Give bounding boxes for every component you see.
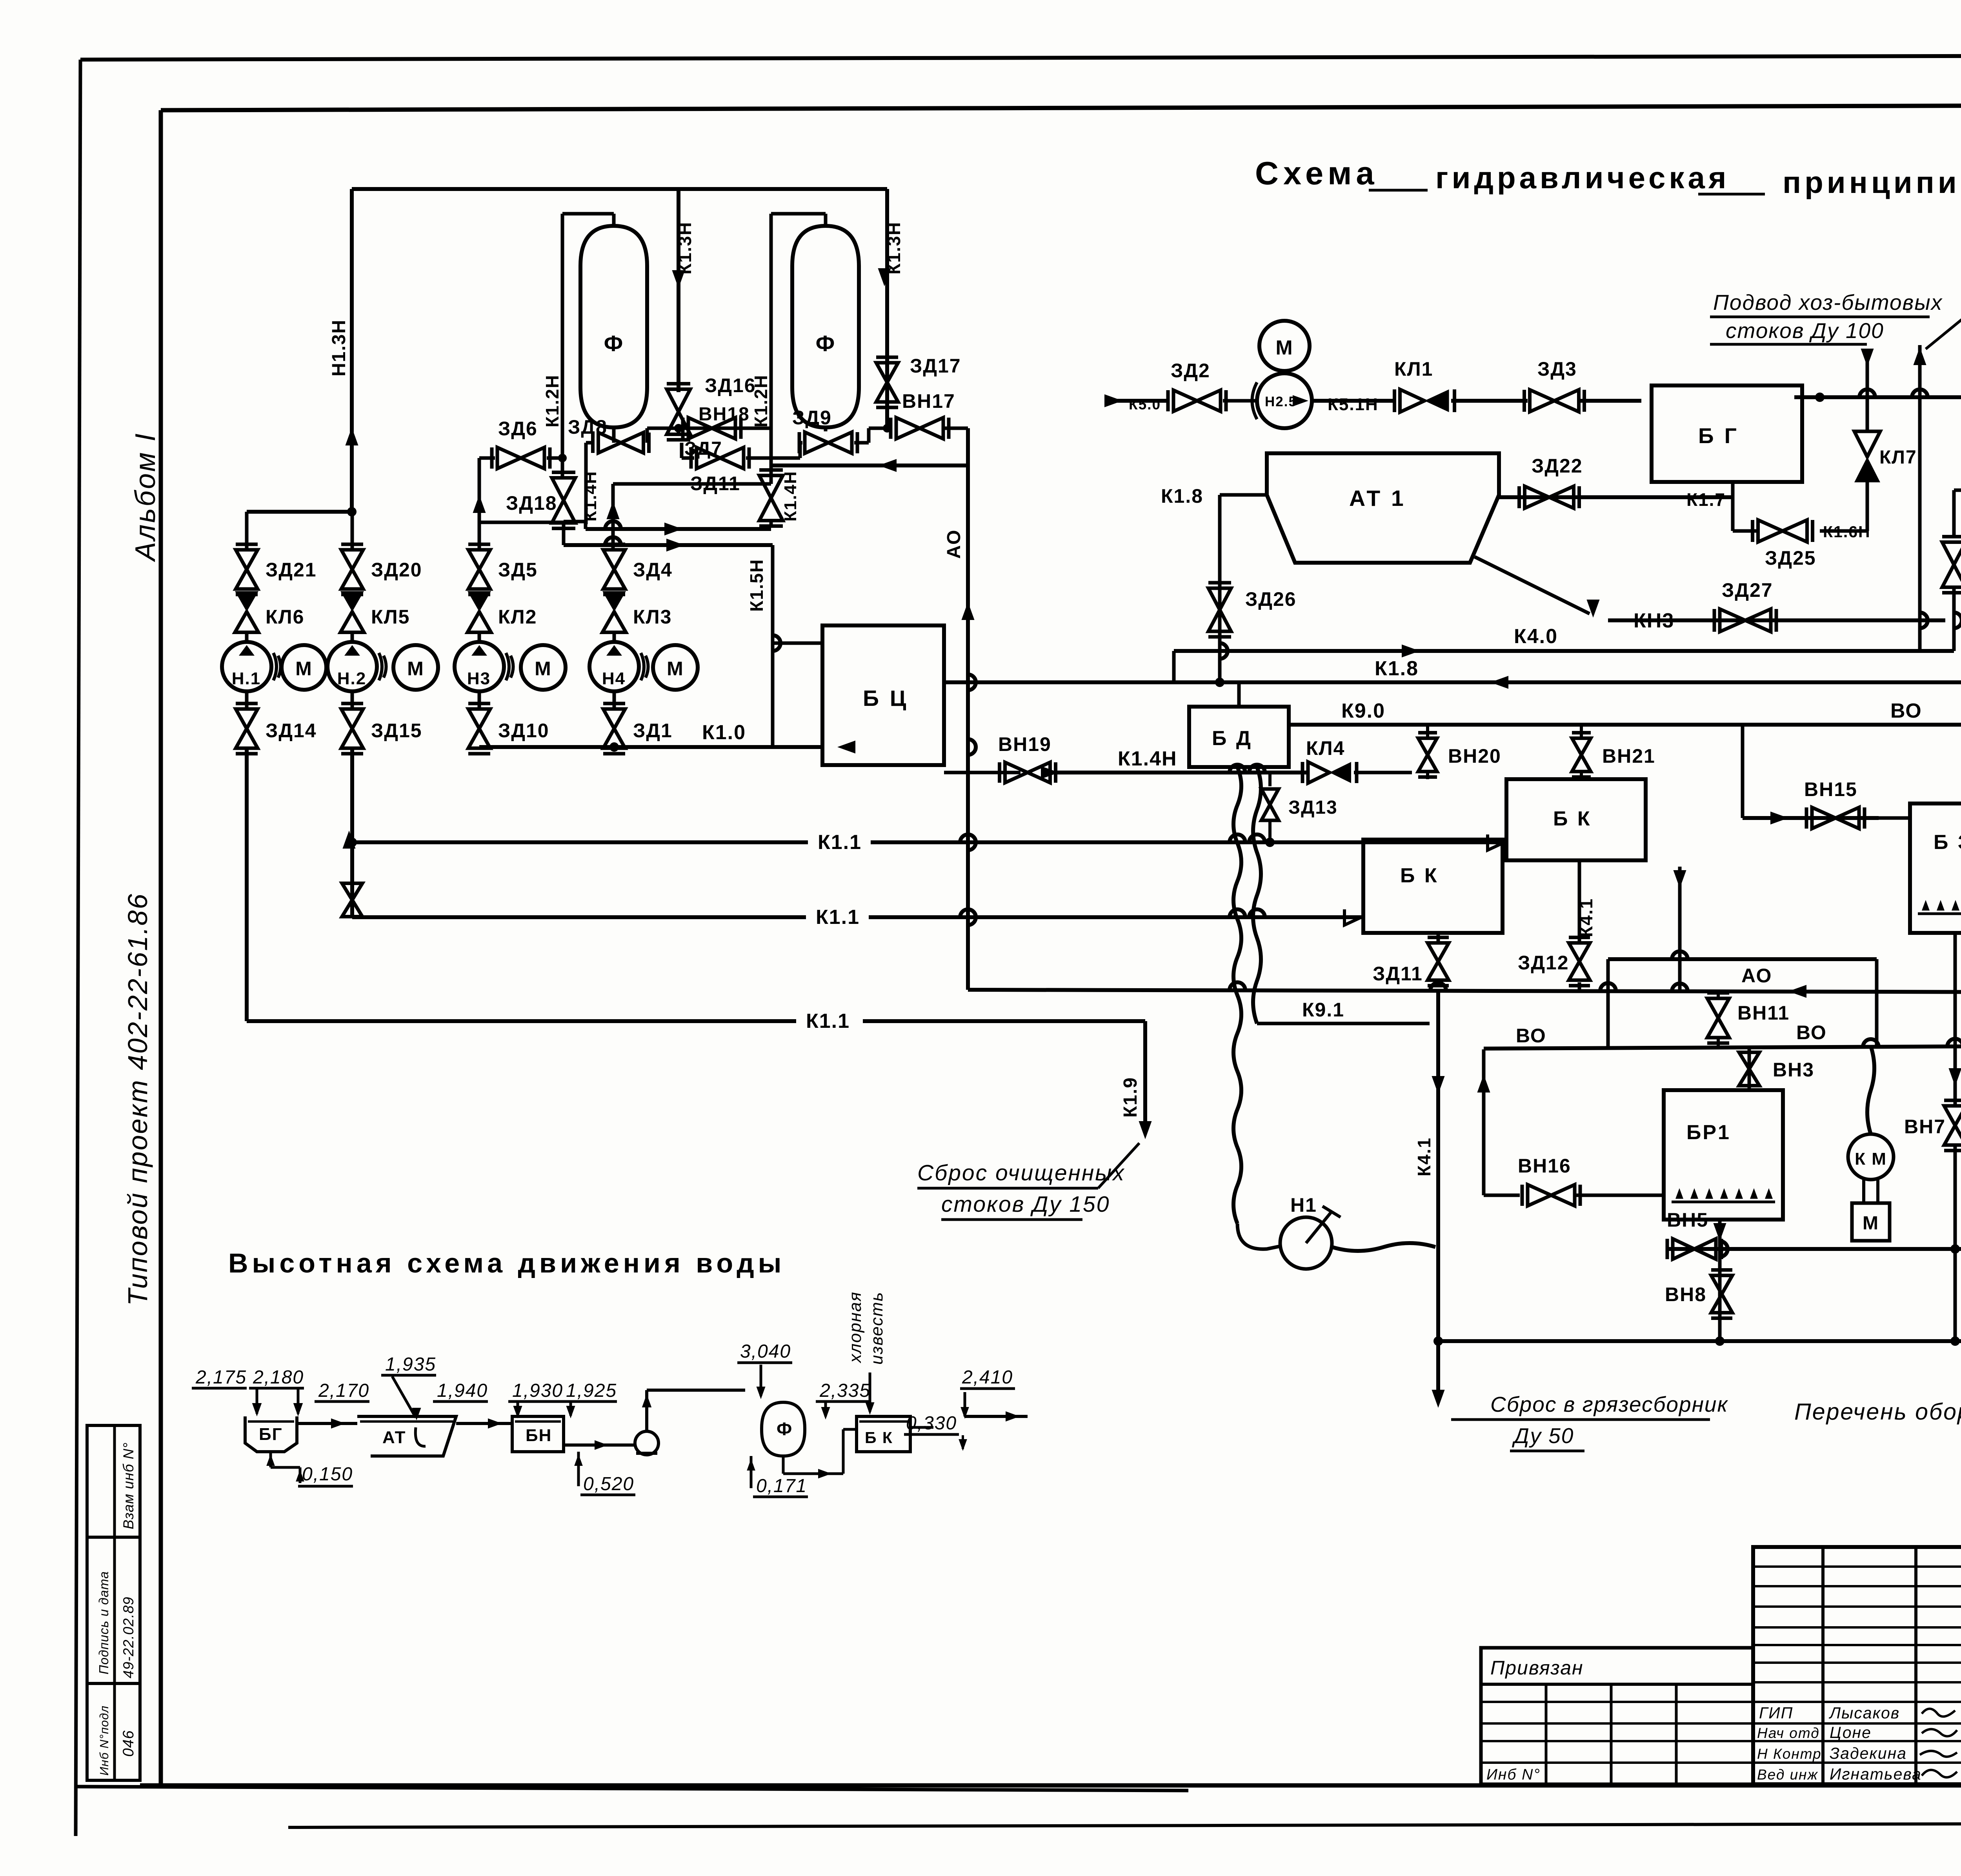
wire ЗД12 bottom xyxy=(1578,982,1581,990)
wire wavy gauge to К4.1 xyxy=(1332,1243,1435,1251)
tank БК upper xyxy=(1506,779,1646,860)
drawing frame xyxy=(161,104,1961,110)
svg-text:Ф: Ф xyxy=(604,331,624,356)
svg-text:2,335: 2,335 xyxy=(819,1380,871,1401)
svg-text:Н Контр: Н Контр xyxy=(1757,1746,1822,1762)
svg-text:АО: АО xyxy=(1741,965,1772,987)
valve ВН19 xyxy=(1005,762,1028,783)
wire К1.3Н drop 2 xyxy=(885,189,889,428)
svg-text:Типовой проект 402-22-61.8: Типовой проект 402-22-61.86 xyxy=(122,893,153,1306)
svg-text:Б К: Б К xyxy=(1553,807,1592,830)
wire КЛ1-ЗД3 xyxy=(1451,399,1528,403)
svg-text:Б К: Б К xyxy=(1400,864,1439,887)
svg-text:К1.4Н: К1.4Н xyxy=(781,471,800,522)
wire filter1 bottom line xyxy=(612,427,616,443)
valve on H2 drop xyxy=(342,883,362,900)
wire АТ1 drain diagonal xyxy=(1475,557,1590,614)
elevation БГ drain xyxy=(269,1452,272,1467)
wire К1.5Н into БЦ xyxy=(773,642,822,645)
svg-text:1,930: 1,930 xyxy=(512,1380,563,1401)
filter Ф2 xyxy=(792,226,859,427)
wire КМ wavy up xyxy=(1867,1046,1874,1134)
valve ЗД25 xyxy=(1758,520,1783,542)
wire ЗД9 line xyxy=(824,427,828,431)
wire БД top stub xyxy=(1237,682,1241,707)
svg-text:ЗД26: ЗД26 xyxy=(1245,588,1297,610)
wire wavy БД drop 1 xyxy=(1233,767,1241,1223)
svg-text:ВН5: ВН5 xyxy=(1667,1209,1708,1231)
svg-text:2,175: 2,175 xyxy=(195,1367,247,1388)
svg-text:ЗД16: ЗД16 xyxy=(705,374,756,396)
wire АО side branch xyxy=(1678,867,1682,991)
wire H3 drop xyxy=(478,747,481,750)
valve ЗД2 xyxy=(1173,390,1197,411)
compressor КМ xyxy=(1848,1134,1894,1180)
svg-text:Сброс в грязесборник: Сброс в грязесборник xyxy=(1490,1392,1728,1416)
wire К1.5Н riser xyxy=(771,545,775,747)
wire Н1.3Н riser xyxy=(350,189,354,512)
wire К1.2Н bypass 1 xyxy=(562,212,614,216)
titleblock small table xyxy=(1753,1547,1961,1784)
title underline dashes xyxy=(1369,189,1428,192)
elevation arrow d xyxy=(569,1402,572,1416)
valve ВН16 xyxy=(1528,1185,1551,1206)
pump Н.2 xyxy=(327,642,377,691)
svg-text:М: М xyxy=(535,658,552,680)
valve ВН7 xyxy=(1944,1106,1961,1125)
svg-text:К1.4Н: К1.4Н xyxy=(581,471,600,522)
svg-text:ВН16: ВН16 xyxy=(1518,1155,1571,1177)
svg-text:3,040: 3,040 xyxy=(740,1341,791,1362)
svg-text:стоков Ду 150: стоков Ду 150 xyxy=(941,1192,1110,1217)
check valve КЛ7 xyxy=(1854,431,1880,457)
svg-text:ГИП: ГИП xyxy=(1759,1704,1793,1722)
svg-text:Н1: Н1 xyxy=(1290,1194,1317,1216)
svg-text:ВО: ВО xyxy=(1890,700,1922,722)
svg-text:1,925: 1,925 xyxy=(566,1380,617,1401)
svg-text:Н.1: Н.1 xyxy=(232,669,261,688)
svg-text:КЛ5: КЛ5 xyxy=(371,606,410,628)
svg-text:Б Г: Б Г xyxy=(1698,424,1739,448)
elevation Ф outlet xyxy=(782,1456,785,1474)
valve ЗД7 xyxy=(697,447,720,469)
svg-text:ВН15: ВН15 xyxy=(1804,778,1857,800)
svg-text:М: М xyxy=(407,658,424,680)
wire ВН7 to collector xyxy=(1954,1146,1957,1249)
gauge Н1 xyxy=(1280,1217,1332,1269)
valve ЗД18 xyxy=(552,478,575,501)
svg-text:Лысаков: Лысаков xyxy=(1828,1704,1900,1722)
check valve КЛ2 xyxy=(468,591,491,612)
valve ЗД13 xyxy=(1261,789,1279,805)
wire АО main xyxy=(968,990,1961,993)
wire К9.0-ВО line xyxy=(1289,723,1961,727)
svg-text:ВН17: ВН17 xyxy=(902,390,955,412)
check valve КЛ5 xyxy=(340,591,364,612)
svg-text:ЗД15: ЗД15 xyxy=(371,720,422,742)
tank БГ xyxy=(1652,385,1802,482)
wire К1.8 from БЦ xyxy=(944,680,1961,684)
svg-text:Н2.5: Н2.5 xyxy=(1265,394,1297,409)
valve ВН15 xyxy=(1812,807,1835,829)
wire transfer line B xyxy=(562,522,566,545)
wire pump Н.2 down xyxy=(351,691,354,708)
svg-text:49-22.02.89: 49-22.02.89 xyxy=(120,1596,136,1678)
wire ВО lower main xyxy=(1484,1046,1961,1049)
svg-text:Альбом I: Альбом I xyxy=(130,432,161,562)
elevation БК out xyxy=(910,1426,933,1429)
wire К1.8 to АТ2 xyxy=(1954,489,1961,492)
svg-text:ВН7: ВН7 xyxy=(1904,1116,1946,1138)
svg-text:ЗД27: ЗД27 xyxy=(1722,579,1773,601)
valve ЗД20 xyxy=(341,550,363,569)
svg-text:Вед инж: Вед инж xyxy=(1757,1767,1818,1783)
svg-text:К1.0: К1.0 xyxy=(702,721,746,744)
svg-text:ЗД8: ЗД8 xyxy=(568,416,608,438)
svg-text:ВО: ВО xyxy=(1796,1022,1827,1043)
wire К1.4Н line xyxy=(944,771,1021,774)
elevation arrow a xyxy=(256,1388,258,1414)
valve ЗД6 xyxy=(497,447,521,469)
wire К1.7 top xyxy=(1794,395,1961,399)
svg-text:2,180: 2,180 xyxy=(253,1367,304,1388)
valve ВН11 xyxy=(1707,998,1729,1018)
wire ВО to ВН16 xyxy=(1482,1049,1486,1195)
svg-text:ЗД12: ЗД12 xyxy=(1518,952,1569,974)
svg-text:АТ: АТ xyxy=(382,1428,406,1447)
svg-text:К9.1: К9.1 xyxy=(1302,999,1344,1021)
valve ЗД11 lower xyxy=(1428,943,1449,962)
valve ВН20 xyxy=(1418,738,1437,755)
svg-text:КЛ7: КЛ7 xyxy=(1879,447,1917,468)
wire pump discharge xyxy=(1312,399,1394,403)
valve ЗД15 xyxy=(341,709,363,729)
svg-text:К4.1: К4.1 xyxy=(1576,898,1596,937)
svg-text:Б З: Б З xyxy=(1934,831,1961,854)
wire КН3-К4.3 line xyxy=(1608,618,1945,622)
wire collector 3185 xyxy=(1669,1247,1961,1251)
wire household inlet arrow xyxy=(1866,349,1869,397)
wire H2 drop xyxy=(350,750,354,917)
elevation tank БК xyxy=(857,1416,910,1452)
svg-text:ЗД5: ЗД5 xyxy=(498,559,538,581)
svg-text:Сброс очищенных: Сброс очищенных xyxy=(917,1160,1125,1185)
svg-text:ВН18: ВН18 xyxy=(699,404,750,425)
tank БЦ xyxy=(822,625,944,765)
svg-text:1,935: 1,935 xyxy=(385,1354,436,1375)
wire ЗД24 down xyxy=(1952,588,1956,651)
valve ЗД24 xyxy=(1942,542,1961,565)
svg-text:Н1.3Н: Н1.3Н xyxy=(329,319,349,376)
svg-text:М: М xyxy=(295,658,313,680)
svg-text:Ду 50: Ду 50 xyxy=(1512,1423,1574,1448)
svg-text:1,940: 1,940 xyxy=(437,1380,488,1401)
filter Ф1 xyxy=(580,226,647,427)
wire H4 drop xyxy=(613,747,616,750)
svg-text:К1.3Н: К1.3Н xyxy=(884,222,904,274)
svg-text:ЗД17: ЗД17 xyxy=(910,355,961,377)
svg-text:БН: БН xyxy=(526,1426,552,1445)
svg-text:ЗД22: ЗД22 xyxy=(1532,455,1583,477)
svg-text:К1.4Н: К1.4Н xyxy=(1118,747,1177,770)
svg-text:хлорная: хлорная xyxy=(846,1291,865,1363)
svg-text:Схема: Схема xyxy=(1255,155,1379,191)
elevation pump riser xyxy=(645,1390,648,1431)
svg-text:ЗД7: ЗД7 xyxy=(684,438,722,459)
svg-text:БГ: БГ xyxy=(259,1425,283,1444)
wire К1.8 stub АТ1 xyxy=(1220,493,1267,497)
svg-text:0,171: 0,171 xyxy=(756,1476,807,1496)
svg-text:Задекина: Задекина xyxy=(1830,1744,1907,1762)
svg-text:Подпись и дата: Подпись и дата xyxy=(96,1571,111,1674)
tank БЗ arrows xyxy=(1918,913,1961,915)
wire wavy to gauge xyxy=(1237,1223,1280,1249)
attribute boxes xyxy=(87,1425,140,1780)
svg-text:Н4: Н4 xyxy=(602,669,626,688)
svg-text:БР1: БР1 xyxy=(1686,1121,1731,1144)
wire pump Н.1 down xyxy=(245,691,249,708)
svg-text:ЗД20: ЗД20 xyxy=(371,559,422,581)
tank БР1 arrows xyxy=(1672,1201,1775,1203)
wire К4.1 drain xyxy=(1436,990,1440,1396)
wire К1.8 arrow xyxy=(1490,676,1508,689)
wire КЛ7 down to К1.6Н xyxy=(1866,482,1869,531)
svg-text:046: 046 xyxy=(120,1730,137,1757)
wire КЛ4 to БК xyxy=(1354,771,1412,774)
pump Н3 xyxy=(455,642,504,691)
svg-text:К1.1: К1.1 xyxy=(816,906,860,929)
svg-text:ВН3: ВН3 xyxy=(1773,1059,1814,1081)
tank АТ1 xyxy=(1267,453,1499,563)
valve ЗД9 xyxy=(805,432,828,453)
pump Н4 xyxy=(589,642,639,691)
valve ВН3 xyxy=(1739,1053,1759,1069)
svg-text:К1.3Н: К1.3Н xyxy=(675,222,695,274)
sheet outer border xyxy=(80,55,1961,60)
wire ЗД3-БГ xyxy=(1581,399,1641,403)
wire pump Н3 down xyxy=(478,691,481,708)
svg-text:К1.1: К1.1 xyxy=(806,1010,850,1033)
valve ВН18 xyxy=(688,418,712,439)
svg-text:М: М xyxy=(1863,1213,1879,1234)
svg-text:Перечень оборудования см.: Перечень оборудования см. лист ТХ-2 xyxy=(1794,1399,1961,1425)
svg-text:ЗД6: ЗД6 xyxy=(498,418,538,440)
svg-text:Подвод хоз-бытовых: Подвод хоз-бытовых xyxy=(1713,290,1943,314)
svg-text:Инб N°подл: Инб N°подл xyxy=(97,1705,111,1776)
svg-text:АО: АО xyxy=(944,529,964,559)
wire branch Н.2 xyxy=(351,512,354,550)
elevation wire БГ-АТ xyxy=(297,1422,357,1425)
svg-text:К5.0: К5.0 xyxy=(1129,396,1161,413)
motor М of Н.1 xyxy=(282,645,326,690)
elevation БН drain dim xyxy=(577,1452,580,1486)
pump Н.1 xyxy=(222,642,271,691)
valve ЗД16 xyxy=(667,389,690,412)
elevation tank БГ xyxy=(245,1416,297,1452)
svg-text:К4.0: К4.0 xyxy=(1514,625,1558,648)
wire ВН3 branch xyxy=(1748,1049,1751,1090)
wire ВН17 to АО corner xyxy=(943,427,968,430)
svg-text:М: М xyxy=(1275,336,1293,359)
svg-text:ВН20: ВН20 xyxy=(1448,745,1501,767)
svg-text:КЛ6: КЛ6 xyxy=(266,606,304,628)
elevation arrow c xyxy=(517,1402,519,1416)
svg-text:К1.9: К1.9 xyxy=(1120,1077,1141,1118)
svg-text:К М: К М xyxy=(1855,1149,1887,1169)
wire К1.0 xyxy=(479,745,822,749)
svg-text:Привязан: Привязан xyxy=(1490,1657,1584,1679)
svg-text:Ф: Ф xyxy=(777,1419,793,1439)
wire ВН18 to К1.2Н-2 xyxy=(735,427,771,430)
svg-text:принципиальная: принципиальная xyxy=(1783,165,1961,200)
svg-text:Нач отд: Нач отд xyxy=(1757,1725,1820,1741)
svg-text:ЗД10: ЗД10 xyxy=(498,720,549,742)
valve ЗД3 xyxy=(1530,390,1555,412)
svg-text:КЛ1: КЛ1 xyxy=(1394,358,1433,380)
svg-text:КЛ3: КЛ3 xyxy=(633,606,672,628)
svg-text:ВН8: ВН8 xyxy=(1665,1283,1706,1305)
valve ЗД1 xyxy=(603,709,625,729)
motor М of Н3 xyxy=(521,645,566,690)
svg-text:ЗД3: ЗД3 xyxy=(1537,358,1577,380)
wire pump Н4 down xyxy=(613,691,616,708)
wire БК upper drop xyxy=(1578,860,1581,943)
svg-text:ВН19: ВН19 xyxy=(998,733,1051,755)
valve ЗД27 xyxy=(1720,609,1745,632)
svg-text:К1.5Н: К1.5Н xyxy=(746,559,767,612)
titleblock signatures xyxy=(1922,1709,1955,1717)
svg-text:ЗД14: ЗД14 xyxy=(266,720,317,742)
svg-text:0,150: 0,150 xyxy=(302,1464,353,1485)
wire К1.3Н drop 1 xyxy=(677,189,680,392)
valve ЗД10 xyxy=(468,709,490,729)
valve ЗД21 xyxy=(236,550,258,569)
motor М of Н4 xyxy=(653,645,698,690)
svg-text:ЗД13: ЗД13 xyxy=(1288,797,1338,818)
svg-text:ЗД9: ЗД9 xyxy=(792,407,832,429)
valve ЗД5 xyxy=(468,550,490,569)
svg-text:Б К: Б К xyxy=(865,1429,893,1447)
svg-text:К1.7: К1.7 xyxy=(1686,489,1726,510)
svg-text:Цоне: Цоне xyxy=(1830,1723,1872,1741)
wire top header xyxy=(352,187,887,191)
svg-text:стоков Ду 100: стоков Ду 100 xyxy=(1726,318,1884,343)
wire К4.0 xyxy=(1174,649,1954,653)
wire ЗД6 stub left xyxy=(479,456,495,460)
svg-text:0,330: 0,330 xyxy=(906,1413,957,1434)
wire ВН16 to БР1 xyxy=(1575,1194,1664,1197)
wire БР1 drain xyxy=(1718,1220,1722,1341)
wire ЗД18 bottom corner xyxy=(479,521,564,524)
svg-text:2,410: 2,410 xyxy=(962,1367,1013,1388)
coupling Н.2 xyxy=(379,653,382,680)
svg-text:К5.1Н: К5.1Н xyxy=(1328,395,1379,414)
wire ЗД11 connections xyxy=(769,465,773,476)
svg-text:известь: известь xyxy=(867,1291,886,1365)
svg-text:К1.6Н: К1.6Н xyxy=(1823,523,1871,541)
svg-text:ВН21: ВН21 xyxy=(1602,745,1655,767)
svg-text:ЗД1: ЗД1 xyxy=(633,720,673,742)
wire АО riser xyxy=(966,428,970,990)
wire КЛ3 to pump xyxy=(613,633,616,642)
wire К1.9 drop xyxy=(1143,1021,1147,1125)
valve ВН5 xyxy=(1673,1239,1694,1259)
elevation wire АТ-БН xyxy=(456,1422,512,1425)
valve ЗД11 top xyxy=(759,476,783,498)
svg-text:гидравлическая: гидравлическая xyxy=(1435,160,1730,195)
tank БД xyxy=(1189,707,1289,767)
wire КЛ7 top stub xyxy=(1866,397,1869,431)
wire pump header to H1 xyxy=(247,510,352,514)
svg-text:К1.8: К1.8 xyxy=(1161,485,1203,507)
svg-text:К4.1: К4.1 xyxy=(1414,1137,1434,1176)
wire К1.7 lower xyxy=(1499,495,1733,499)
svg-text:ЗД4: ЗД4 xyxy=(633,559,673,581)
wire ЗД25 left corner xyxy=(1733,529,1757,533)
wire ЗД16 to ВН18 line xyxy=(677,428,680,434)
motor М of Н.2 xyxy=(393,645,438,690)
valve ЗД26 xyxy=(1208,588,1231,610)
svg-text:ЗД11: ЗД11 xyxy=(1373,963,1423,985)
svg-text:Высотная схема движения: Высотная схема движения воды xyxy=(228,1248,785,1278)
valve ЗД17 xyxy=(876,363,898,382)
svg-text:Б Ц: Б Ц xyxy=(863,686,908,711)
svg-text:Ф: Ф xyxy=(816,331,836,356)
elevation pump xyxy=(635,1431,659,1455)
wire H1 drop to К1.1 low xyxy=(245,750,249,1021)
wire wavy БД drop 2 xyxy=(1253,767,1261,1023)
wire ЗД7 line xyxy=(682,456,694,460)
elevation tank БН xyxy=(512,1416,564,1452)
svg-text:2,170: 2,170 xyxy=(318,1380,369,1401)
wire К4.0 left corner xyxy=(1172,651,1176,682)
wire К9.1 xyxy=(1257,1022,1430,1025)
svg-text:Игнатьева: Игнатьева xyxy=(1830,1765,1922,1783)
wire КЛ2 to pump xyxy=(478,633,481,642)
svg-text:ЗД18: ЗД18 xyxy=(506,492,557,514)
svg-text:АТ 1: АТ 1 xyxy=(1349,486,1406,511)
coupling Н.1 xyxy=(273,653,277,680)
elevation tank АТ xyxy=(357,1416,456,1456)
check valve КЛ4 xyxy=(1308,762,1330,783)
svg-text:Н.2: Н.2 xyxy=(337,669,366,688)
elevation vessel Ф xyxy=(762,1402,805,1456)
wire branch Н4 xyxy=(613,548,616,552)
coupling Н4 xyxy=(641,653,644,680)
wire ВН7 drop xyxy=(1954,933,1957,1105)
svg-text:К1.1: К1.1 xyxy=(818,831,862,854)
wire return arrow line xyxy=(771,464,968,467)
pump Н2.5 xyxy=(1257,373,1312,428)
elevation arrow e xyxy=(824,1402,827,1416)
svg-text:Б Д: Б Д xyxy=(1212,727,1253,750)
pump train suction xyxy=(1110,399,1167,403)
wire БГ bottom stub xyxy=(1731,482,1735,497)
valve ЗД22 xyxy=(1525,486,1550,508)
coupling Н3 xyxy=(506,653,509,680)
wire transfer line A xyxy=(564,520,586,524)
wire to pump Н2.5 xyxy=(1223,399,1257,403)
tank БЗ xyxy=(1910,803,1961,933)
wire ВН15 feed xyxy=(1741,725,1745,818)
wire К1.2Н bypass 2 xyxy=(771,212,826,216)
svg-text:ВО: ВО xyxy=(1516,1025,1546,1047)
tank БК lower xyxy=(1363,840,1503,933)
svg-text:Инб N°: Инб N° xyxy=(1486,1766,1541,1783)
wire branch Н.1 xyxy=(245,512,249,550)
motor М Н2.5 xyxy=(1259,321,1310,371)
svg-text:М: М xyxy=(667,658,684,680)
